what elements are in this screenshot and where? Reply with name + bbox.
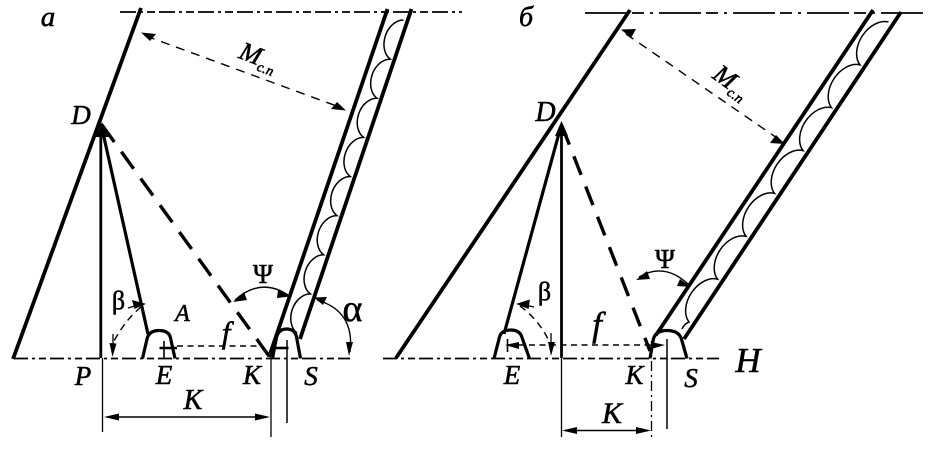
line D-E: [101, 124, 148, 334]
M arrow to slope line: [141, 33, 156, 42]
K dim right arrow: [255, 414, 270, 421]
svg-text:K: K: [242, 360, 263, 390]
seam right boundary line: [300, 9, 412, 339]
seam left boundary line: [269, 9, 388, 357]
svg-text:β: β: [112, 286, 125, 315]
svg-text:б: б: [519, 2, 534, 33]
plumb line below S (right): [666, 339, 668, 429]
shaft symbol at E (dome): [143, 331, 176, 359]
svg-text:E: E: [155, 360, 173, 390]
K dim left arrow (right): [562, 427, 577, 434]
psi right arrowhead (right): [677, 279, 691, 287]
baseline (right, dash-dot): [383, 358, 719, 360]
shaft symbol at E (right): [494, 330, 530, 359]
beta pointer arrow to DE line (right): [518, 301, 534, 309]
K dimension line (left): [108, 416, 266, 418]
extension line below P: [102, 358, 104, 432]
K dim left arrow: [104, 414, 119, 421]
svg-text:D: D: [534, 97, 555, 128]
arrowhead at D (up): [96, 122, 109, 137]
M arrow to slope (right): [621, 29, 636, 38]
M dimension dashed line (right): [626, 34, 780, 140]
seam right boundary (right): [684, 12, 901, 339]
beta down arrow at baseline: [110, 343, 117, 357]
vertical line D-P: [99, 124, 102, 358]
svg-text:H: H: [734, 341, 762, 380]
svg-text:Ψ: Ψ: [253, 259, 273, 289]
seam scallop filling: [290, 20, 404, 333]
svg-text:S: S: [684, 363, 698, 393]
slope line through D: [13, 8, 141, 359]
plumb tick inside E (right): [507, 339, 509, 352]
f dimension dashed line (right): [508, 344, 662, 346]
vertical line from D (right): [560, 126, 563, 358]
ground surface line (top right, dash-dot): [585, 12, 928, 14]
svg-text:D: D: [70, 100, 91, 130]
svg-text:Ψ: Ψ: [655, 244, 675, 274]
K dim right arrow (right): [636, 427, 651, 434]
extension line below K (left): [270, 358, 272, 437]
dashed line D-K: [102, 125, 269, 356]
extension below (right): [561, 358, 563, 437]
K dimension extension (dash-dot) below K (right): [651, 341, 653, 437]
psi left arrowhead (right): [636, 271, 650, 280]
beta down arrow at baseline (right): [548, 342, 555, 356]
svg-text:а: а: [41, 1, 56, 33]
baseline (left, dash-dot): [14, 358, 350, 360]
svg-text:K: K: [624, 360, 645, 390]
dashed line D-K (right): [562, 126, 650, 351]
alpha arrow to seam line: [314, 297, 327, 305]
svg-text:K: K: [183, 385, 204, 416]
psi arc (right): [639, 271, 688, 284]
f dimension dashed line (left panel): [177, 345, 262, 347]
svg-text:α: α: [343, 288, 363, 330]
psi right arrowhead: [277, 290, 290, 298]
alpha arc: [317, 300, 351, 352]
seam left boundary (right): [656, 10, 873, 335]
svg-text:A: A: [173, 301, 190, 327]
svg-text:P: P: [74, 361, 92, 391]
plumb tick inside E: [163, 341, 165, 358]
shaft symbol at S (dome): [273, 329, 301, 359]
M arrow to seam line: [331, 102, 346, 111]
psi arc (left): [235, 287, 288, 300]
line D-E (right): [504, 126, 561, 334]
beta pointer arrow to DE line: [128, 301, 144, 308]
tick bar at S: [273, 347, 289, 350]
seam scallops (right): [682, 22, 889, 329]
M arrow to seam (right): [770, 135, 785, 144]
beta dashed arc: [114, 307, 141, 341]
K dimension line (right): [565, 430, 648, 432]
M dimension dashed line (left): [146, 36, 342, 108]
ground surface line (top, dash-dot): [120, 11, 462, 13]
beta dashed arc (right): [520, 306, 549, 341]
f right arrowhead (right panel): [651, 342, 665, 349]
svg-text:K: K: [601, 397, 624, 430]
svg-text:E: E: [503, 360, 521, 390]
plumb line below S: [286, 340, 288, 423]
tick bar at E: [160, 347, 178, 350]
shaft symbol at S (right): [650, 331, 687, 359]
f left arrowhead (right panel): [505, 342, 519, 349]
slope line through D (right): [396, 10, 630, 358]
psi left arrowhead: [233, 292, 247, 302]
svg-text:S: S: [304, 361, 318, 391]
alpha down arrow at baseline: [346, 342, 353, 356]
svg-text:β: β: [538, 277, 551, 306]
arrowhead at D (right, up): [555, 121, 568, 136]
